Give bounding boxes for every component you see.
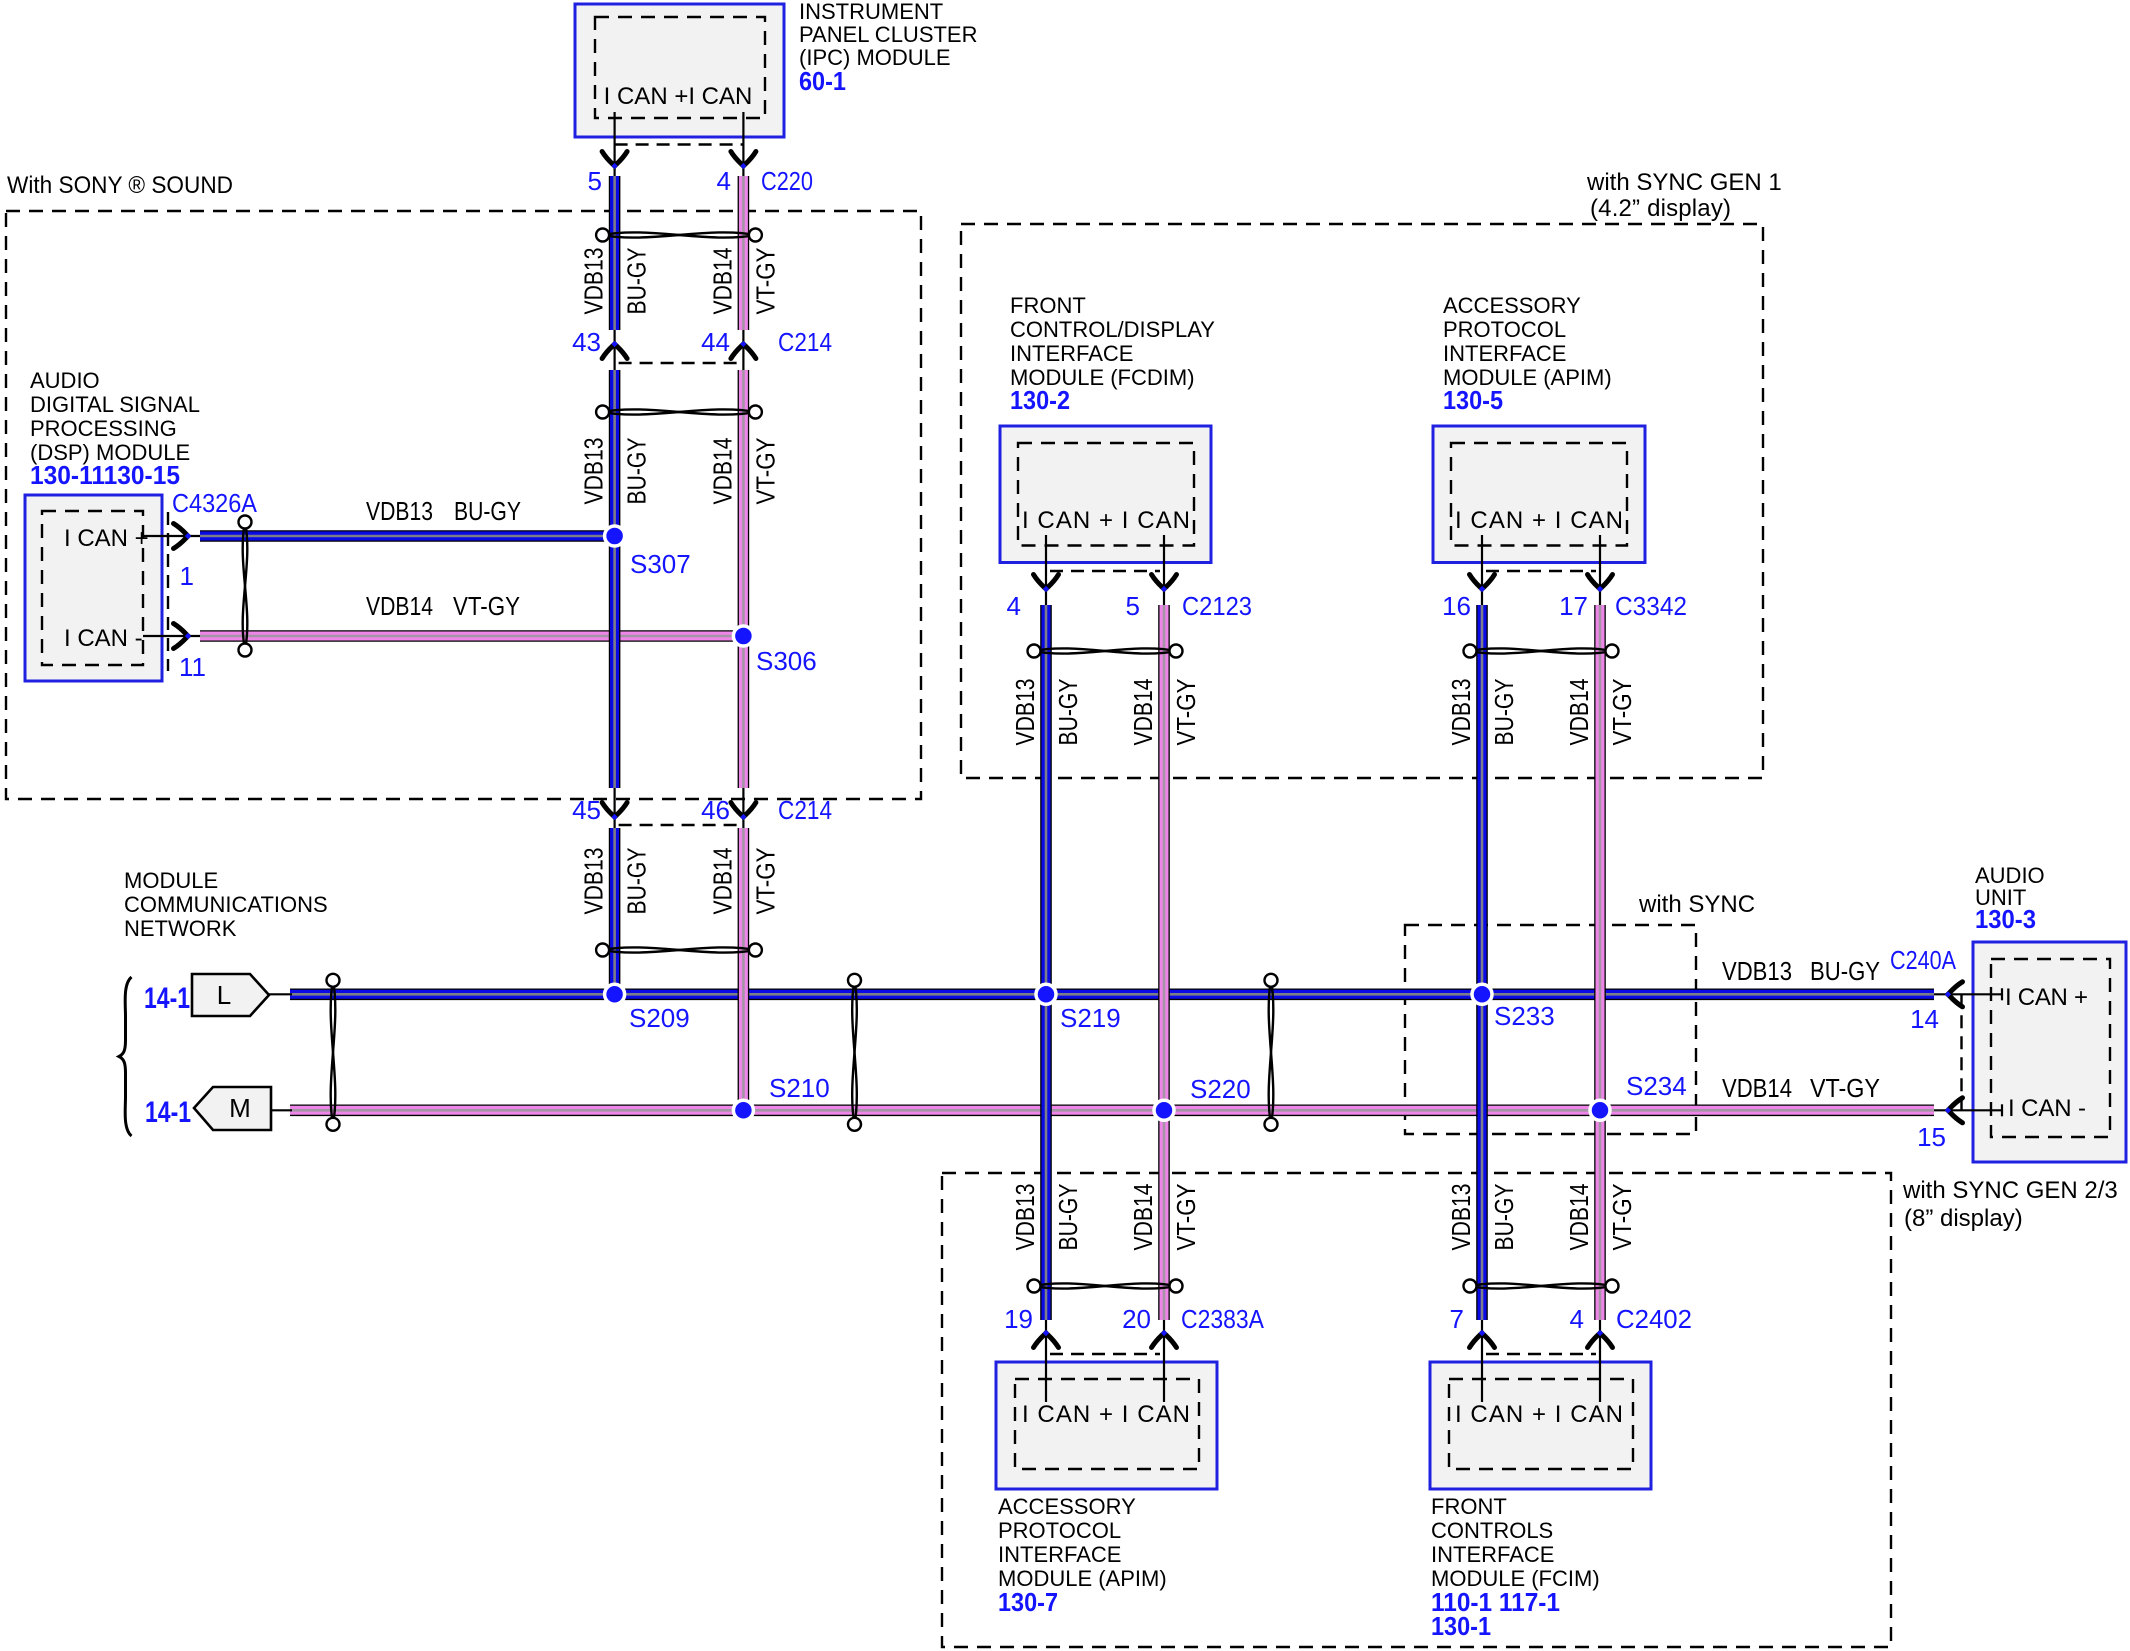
svg-text:BU-GY: BU-GY (1053, 679, 1083, 746)
svg-text:4: 4 (1570, 1304, 1584, 1334)
svg-text:S234: S234 (1626, 1071, 1687, 1101)
wire VDB13 col1 seg C214-S209 (609, 828, 621, 994)
svg-text:INTERFACE: INTERFACE (1010, 341, 1133, 366)
twisted-pair symbol DSP pair (239, 516, 252, 657)
svg-text:I CAN + I CAN: I CAN + I CAN (1455, 507, 1623, 534)
svg-text:130-7: 130-7 (998, 1587, 1058, 1617)
svg-text:VDB13: VDB13 (1010, 1184, 1040, 1251)
connector C240A leads arrows pins 14 15 (1934, 993, 2002, 995)
splice S220 (1154, 1100, 1174, 1120)
module AUDIO UNIT 130-3 (1973, 942, 2126, 1162)
svg-text:BU-GY: BU-GY (622, 438, 652, 505)
svg-text:VT-GY: VT-GY (750, 848, 780, 915)
svg-text:BU-GY: BU-GY (1810, 956, 1880, 986)
svg-text:130-3: 130-3 (1975, 904, 2036, 934)
svg-text:43: 43 (572, 327, 601, 357)
svg-text:I CAN + I CAN: I CAN + I CAN (1022, 1401, 1190, 1428)
connector C3342 leads arrows pins 16 17 (1481, 535, 1483, 605)
svg-text:17: 17 (1559, 591, 1588, 621)
svg-text:5: 5 (1126, 591, 1140, 621)
twisted-pair symbol pair1 top (596, 229, 762, 242)
svg-text:VDB13: VDB13 (1010, 679, 1040, 746)
svg-text:46: 46 (701, 795, 730, 825)
svg-text:VT-GY: VT-GY (1171, 1184, 1201, 1251)
svg-text:S306: S306 (756, 646, 817, 676)
connector C2123 leads arrows pins 4 5 (1045, 535, 1047, 605)
svg-text:VDB13: VDB13 (1446, 1184, 1476, 1251)
svg-text:4: 4 (1007, 591, 1021, 621)
svg-text:C214: C214 (778, 327, 832, 357)
svg-text:VDB14: VDB14 (1128, 1184, 1158, 1251)
svg-text:L: L (217, 980, 231, 1010)
wire VDB14 col2 seg C214-S210 (738, 828, 750, 1110)
module FCIM front controls interface module 110-1 117-1 130-1 (1430, 1362, 1651, 1489)
svg-text:11: 11 (179, 652, 206, 682)
svg-text:S209: S209 (629, 1003, 690, 1033)
svg-text:14-1: 14-1 (145, 1096, 191, 1129)
svg-text:S210: S210 (769, 1073, 830, 1103)
splice S234 (1590, 1100, 1610, 1120)
inline connector C214 pins 45 46 (613, 788, 615, 828)
svg-text:INTERFACE: INTERFACE (1443, 341, 1566, 366)
svg-text:INTERFACE: INTERFACE (1431, 1542, 1554, 1567)
connector C220 leads and arrows (613, 112, 615, 176)
svg-text:VDB14: VDB14 (1722, 1073, 1792, 1103)
svg-text:VDB13: VDB13 (1446, 679, 1476, 746)
svg-text:VDB14: VDB14 (707, 248, 737, 315)
svg-text:19: 19 (1004, 1304, 1033, 1334)
svg-text:INTERFACE: INTERFACE (998, 1542, 1121, 1567)
wire VDB13 col5 APIM pin16 to FCIM pin7 (1476, 605, 1488, 1320)
svg-text:C2402: C2402 (1616, 1304, 1692, 1334)
svg-text:VT-GY: VT-GY (1171, 679, 1201, 746)
svg-text:AUDIO: AUDIO (30, 368, 100, 393)
svg-text:CONTROL/DISPLAY: CONTROL/DISPLAY (1010, 317, 1215, 342)
region box: With SONY SOUND (6, 211, 921, 799)
svg-text:BU-GY: BU-GY (622, 848, 652, 915)
svg-text:C2383A: C2383A (1181, 1304, 1265, 1334)
splice S210 (733, 1100, 753, 1120)
splice S233 (1472, 984, 1492, 1004)
twisted-pair symbol pair APIM (1464, 645, 1619, 658)
svg-text:130-11130-15: 130-11130-15 (30, 460, 180, 490)
region box: with SYNC GEN 1 (961, 224, 1763, 778)
curly brace for network connectors (119, 977, 132, 1136)
svg-text:I CAN -: I CAN - (2008, 1095, 2086, 1122)
twisted-pair symbol bus twist 1 (327, 974, 340, 1131)
svg-text:DIGITAL SIGNAL: DIGITAL SIGNAL (30, 392, 200, 417)
svg-text:ACCESSORY: ACCESSORY (1443, 293, 1581, 318)
wire VDB13 BU-GY from DSP to S307 (200, 530, 608, 542)
svg-text:C220: C220 (761, 166, 813, 196)
svg-text:VDB13: VDB13 (1722, 956, 1792, 986)
module DSP audio digital signal processing module 130-11 130-15 (25, 495, 162, 681)
svg-text:FRONT: FRONT (1010, 293, 1086, 318)
svg-text:VDB14: VDB14 (1564, 1184, 1594, 1251)
region box: with SYNC (1405, 925, 1696, 1134)
svg-text:C240A: C240A (1890, 945, 1957, 975)
wire VDB14 col4 S220 to APIM2 pin20 (1158, 1110, 1170, 1320)
svg-text:VDB13: VDB13 (366, 496, 433, 526)
twisted-pair symbol pair1 mid (596, 406, 762, 419)
svg-text:130-2: 130-2 (1010, 385, 1070, 415)
svg-text:5: 5 (588, 166, 602, 196)
module IPC (instrument panel cluster) 60-1 (575, 4, 784, 137)
svg-text:I CAN + I CAN: I CAN + I CAN (1022, 507, 1190, 534)
connector C4326A leads arrows pins 1 11 (143, 535, 200, 537)
wire VDB14 col2 seg C214-C214 via S306 (738, 370, 750, 788)
wire bus L VDB13 BU-GY (290, 988, 1934, 1000)
svg-text:VDB14: VDB14 (1128, 679, 1158, 746)
svg-text:PANEL CLUSTER: PANEL CLUSTER (799, 22, 978, 47)
svg-text:C214: C214 (778, 795, 832, 825)
wire VDB14 VT-GY from DSP to S306 (200, 630, 736, 642)
svg-text:VT-GY: VT-GY (453, 591, 520, 621)
wire VDB13 col3 FCDIM pin4 to APIM2 pin19 (1040, 605, 1052, 1320)
svg-text:S219: S219 (1060, 1003, 1121, 1033)
svg-text:14-1: 14-1 (144, 982, 190, 1015)
svg-text:(4.2” display): (4.2” display) (1590, 195, 1731, 222)
inline connector C214 pins 43 44 (613, 330, 615, 370)
splice S209 (605, 984, 625, 1004)
svg-text:M: M (229, 1093, 251, 1123)
svg-text:45: 45 (572, 795, 601, 825)
svg-text:4: 4 (717, 166, 731, 196)
svg-text:With SONY ® SOUND: With SONY ® SOUND (7, 172, 233, 199)
svg-text:with SYNC GEN 2/3: with SYNC GEN 2/3 (1902, 1177, 2118, 1204)
svg-text:VT-GY: VT-GY (750, 438, 780, 505)
svg-text:16: 16 (1442, 591, 1471, 621)
svg-text:MODULE: MODULE (124, 868, 218, 893)
svg-text:S233: S233 (1494, 1001, 1555, 1031)
svg-text:130-5: 130-5 (1443, 385, 1503, 415)
svg-text:C4326A: C4326A (172, 488, 258, 518)
wire VDB14 col6 APIM pin17 to S234 (1594, 605, 1606, 1110)
splice S307 (605, 526, 625, 546)
svg-text:VDB14: VDB14 (707, 438, 737, 505)
svg-text:C2123: C2123 (1182, 591, 1252, 621)
twisted-pair symbol pair FCDIM (1028, 645, 1183, 658)
svg-text:INSTRUMENT: INSTRUMENT (799, 0, 943, 24)
svg-text:1: 1 (180, 561, 194, 591)
svg-text:VDB13: VDB13 (579, 848, 609, 915)
svg-text:BU-GY: BU-GY (1489, 679, 1519, 746)
svg-text:VT-GY: VT-GY (1607, 679, 1637, 746)
svg-text:C3342: C3342 (1615, 591, 1687, 621)
svg-text:PROTOCOL: PROTOCOL (1443, 317, 1566, 342)
twisted-pair symbol pair FCIM (1464, 1280, 1619, 1293)
twisted-pair symbol bus twist 2 (848, 974, 861, 1131)
module APIM accessory protocol interface module 130-7 (996, 1362, 1217, 1489)
svg-text:CONTROLS: CONTROLS (1431, 1518, 1553, 1543)
svg-text:BU-GY: BU-GY (1489, 1184, 1519, 1251)
svg-text:VDB14: VDB14 (707, 848, 737, 915)
svg-text:PROTOCOL: PROTOCOL (998, 1518, 1121, 1543)
wire bus M VDB14 VT-GY (290, 1105, 1934, 1117)
svg-text:I CAN +: I CAN + (2005, 984, 2088, 1011)
region box: with SYNC GEN 2/3 (942, 1173, 1891, 1647)
connector C2383A leads arrows pins 19 20 (1045, 1320, 1047, 1402)
splice S219 (1036, 984, 1056, 1004)
svg-text:S220: S220 (1190, 1074, 1251, 1104)
svg-text:130-1: 130-1 (1431, 1611, 1491, 1641)
svg-text:BU-GY: BU-GY (1053, 1184, 1083, 1251)
svg-text:VDB13: VDB13 (579, 248, 609, 315)
svg-text:VT-GY: VT-GY (1810, 1073, 1880, 1103)
svg-text:VDB13: VDB13 (579, 438, 609, 505)
svg-text:44: 44 (701, 327, 730, 357)
svg-text:PROCESSING: PROCESSING (30, 416, 177, 441)
wire VDB14 col4 FCDIM pin5 to S220 (1158, 605, 1170, 1110)
svg-text:14: 14 (1910, 1004, 1939, 1034)
svg-text:NETWORK: NETWORK (124, 916, 237, 941)
twisted-pair symbol pair APIM2 (1028, 1280, 1183, 1293)
twisted-pair symbol bus twist 3 (1265, 974, 1278, 1131)
svg-text:COMMUNICATIONS: COMMUNICATIONS (124, 892, 328, 917)
svg-text:60-1: 60-1 (799, 66, 846, 96)
svg-text:VT-GY: VT-GY (1607, 1184, 1637, 1251)
module FCDIM front control/display interface module 130-2 (1000, 426, 1211, 563)
svg-text:(8” display): (8” display) (1904, 1205, 2023, 1232)
svg-text:20: 20 (1122, 1304, 1151, 1334)
splice S306 (733, 626, 753, 646)
svg-text:VDB14: VDB14 (366, 591, 433, 621)
svg-text:I CAN +: I CAN + (64, 525, 149, 552)
svg-text:with SYNC: with SYNC (1638, 891, 1755, 918)
svg-text:I CAN +I CAN: I CAN +I CAN (604, 83, 753, 110)
svg-text:VT-GY: VT-GY (750, 248, 780, 315)
wire VDB13 col1 seg C220-C214 (609, 176, 621, 330)
svg-text:I CAN -: I CAN - (64, 625, 143, 652)
twisted-pair symbol pair1 low (596, 944, 762, 957)
svg-text:I CAN + I CAN: I CAN + I CAN (1455, 1401, 1623, 1428)
svg-text:15: 15 (1917, 1122, 1946, 1152)
module APIM accessory protocol interface module 130-5 (1433, 426, 1645, 563)
svg-text:with SYNC GEN 1: with SYNC GEN 1 (1586, 169, 1782, 196)
svg-text:BU-GY: BU-GY (622, 248, 652, 315)
connector C2402 leads arrows pins 7 4 (1481, 1320, 1483, 1402)
wire VDB13 col1 seg C214-C214 via S307 (609, 370, 621, 788)
svg-text:ACCESSORY: ACCESSORY (998, 1494, 1136, 1519)
svg-text:VDB14: VDB14 (1564, 679, 1594, 746)
wire VDB14 col2 seg C220-C214 (738, 176, 750, 330)
svg-text:7: 7 (1450, 1304, 1464, 1334)
svg-text:FRONT: FRONT (1431, 1494, 1507, 1519)
svg-text:BU-GY: BU-GY (454, 496, 521, 526)
wire VDB14 col6 S234 to FCIM pin4 (1594, 1110, 1606, 1320)
svg-text:S307: S307 (630, 549, 691, 579)
